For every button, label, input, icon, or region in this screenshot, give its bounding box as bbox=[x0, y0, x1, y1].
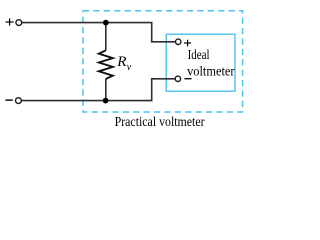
label: - at source bottom-left bbox=[5, 99, 12, 101]
wire: resistor top lead bbox=[105, 23, 107, 51]
label: + at source top-left bbox=[6, 18, 14, 25]
wire: top from + terminal to corner and down to ideal voltmeter + pin bbox=[22, 23, 176, 42]
label: - at ideal voltmeter pin bbox=[184, 78, 191, 80]
node: bottom junction bbox=[103, 98, 109, 104]
wire: resistor bottom lead bbox=[105, 79, 107, 101]
svg-text:Ideal: Ideal bbox=[188, 47, 210, 62]
dashed box: practical voltmeter boundary bbox=[83, 11, 243, 112]
label: + at ideal voltmeter pin bbox=[184, 40, 191, 47]
svg-text:Practical voltmeter: Practical voltmeter bbox=[115, 114, 205, 128]
wire: bottom from - terminal to corner and up to ideal voltmeter - pin bbox=[21, 79, 175, 101]
resistor Rv zigzag bbox=[99, 50, 113, 79]
pin: ideal voltmeter + terminal circle bbox=[176, 39, 181, 44]
node: top junction bbox=[103, 20, 109, 26]
pin: ideal voltmeter - terminal circle bbox=[175, 76, 180, 81]
terminal: bottom-left open circle bbox=[16, 98, 22, 104]
svg-text:voltmeter: voltmeter bbox=[187, 63, 235, 78]
ideal voltmeter box U1 bbox=[166, 34, 235, 91]
svg-text:R: R bbox=[116, 54, 126, 70]
svg-text:v: v bbox=[127, 62, 132, 73]
terminal: top-left open circle bbox=[16, 20, 22, 26]
